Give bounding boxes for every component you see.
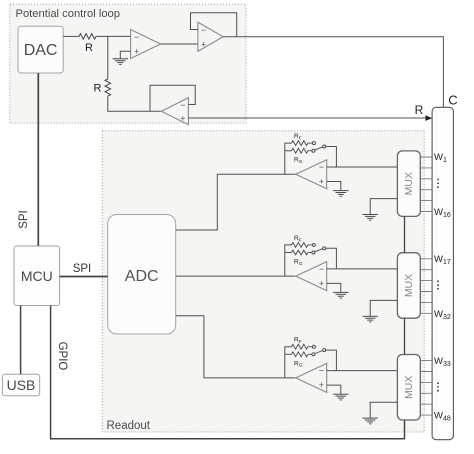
resistor R1: [79, 34, 96, 40]
resistor R2: [105, 79, 111, 96]
wire: U2 output to counter electrode C: [223, 37, 443, 108]
wire: R1 to op-amp U1 inverting input, junction node: [96, 35, 131, 37]
wire: MCU to ADC (SPI): [60, 276, 108, 278]
wire: A1 non-inverting input to ground: [327, 182, 341, 191]
svg-text:−: −: [319, 264, 324, 274]
dots: ellipsis W33..W48: [437, 382, 439, 391]
wire: A3 feedback left leg: [285, 347, 292, 378]
resistor Rf of A3: [292, 344, 308, 349]
svg-text:−: −: [201, 25, 206, 35]
wire: DAC output to resistor R: [63, 35, 79, 37]
svg-text:+: +: [319, 380, 324, 390]
wire: switch pole to inverting input of A2: [326, 248, 337, 269]
svg-text:MUX: MUX: [403, 376, 415, 399]
switch wiper of A1 gain select: [315, 147, 323, 150]
ground symbol at MUX1: [362, 214, 378, 216]
block MUX3: [397, 355, 420, 421]
resistor Rg of A1: [292, 148, 308, 153]
wire: MUX3 ground: [370, 402, 397, 418]
svg-text:C: C: [448, 93, 457, 108]
ground symbol at MUX2: [362, 315, 378, 317]
wire: junction down to resistor R2: [107, 36, 109, 79]
wire+ground: U1 non-inverting input to ground: [120, 51, 130, 59]
dashed box: readout: [102, 131, 424, 432]
wire: A2 non-inverting input to ground: [327, 283, 341, 292]
ground symbol G1: [113, 58, 129, 60]
ground symbol at A1: [333, 190, 349, 192]
svg-text:Readout: Readout: [107, 420, 151, 432]
block ADC: [108, 215, 176, 335]
dots: ellipsis W17..W32: [437, 280, 439, 289]
wire: A2 inverting input to MUX2: [327, 268, 398, 270]
svg-text:−: −: [134, 32, 139, 42]
svg-text:R: R: [415, 103, 424, 117]
svg-text:MUX: MUX: [403, 274, 415, 297]
block DAC: [18, 26, 63, 73]
ground symbol at MUX3: [362, 417, 378, 419]
svg-text:−: −: [319, 162, 324, 172]
ground symbol at A2: [333, 291, 349, 293]
svg-text:+: +: [319, 177, 324, 187]
op-amp U2: [198, 22, 223, 51]
block MUX1: [397, 151, 420, 217]
wire: MCU to USB: [20, 306, 22, 375]
svg-text:−: −: [180, 100, 185, 110]
op-amp U3: [161, 98, 188, 125]
wire: MUX2 ground: [370, 300, 397, 316]
wire: U1 output to U2 non-inverting input: [161, 43, 198, 45]
op-amp A1: [296, 160, 327, 189]
svg-text:USB: USB: [7, 377, 36, 393]
wire: ADC channel 2 to op-amp A2 output: [176, 275, 296, 277]
ground symbol at A3: [333, 393, 349, 395]
svg-text:MCU: MCU: [21, 268, 53, 284]
wire: A3 non-inverting input to ground: [327, 385, 341, 394]
wire: MCU GPIO bus to MUX chain: [51, 306, 405, 439]
block MCU: [14, 246, 60, 306]
svg-text:R: R: [94, 83, 102, 95]
svg-text:SPI: SPI: [18, 210, 30, 229]
wire: A1 inverting input to MUX1: [327, 166, 398, 168]
svg-text:+: +: [180, 113, 185, 123]
wire: R2 to op-amp U3 output: [108, 96, 162, 111]
svg-text:DAC: DAC: [24, 42, 58, 59]
svg-text:R: R: [85, 42, 93, 54]
wire: ADC channel 3 to op-amp A3 output: [176, 316, 296, 378]
resistor Rf of A1: [292, 141, 308, 146]
resistor Rf of A2: [292, 243, 308, 248]
wire: U3 non-inverting input from reference electrode R, with arrow: [188, 117, 426, 119]
svg-text:Potential control loop: Potential control loop: [16, 8, 120, 20]
arrowhead into electrode bar: [426, 115, 433, 121]
wires: MUX2 outputs to electrode bar: [420, 259, 432, 314]
op-amp A2: [296, 262, 327, 291]
block MUX2: [397, 253, 420, 319]
wire: A2 feedback left leg: [285, 245, 292, 276]
svg-text:SPI: SPI: [73, 263, 92, 275]
switch wiper of A2 gain select: [315, 249, 323, 252]
dashed box: potential control loop: [10, 4, 246, 123]
wire: ADC channel 1 to op-amp A1 output: [176, 174, 296, 230]
wire: MUX1 to MUX2 select chain: [404, 216, 406, 252]
wires: MUX3 outputs to electrode bar: [420, 361, 432, 416]
wire: U2 feedback loop: [191, 13, 237, 37]
wire: A3 inverting input to MUX3: [327, 370, 398, 372]
switch wiper of A3 gain select: [315, 351, 323, 354]
resistor Rg of A3: [292, 352, 308, 357]
wire: MUX2 to MUX3 select chain: [404, 318, 406, 354]
svg-text:+: +: [201, 39, 206, 49]
svg-text:MUX: MUX: [403, 172, 415, 195]
wire: A1 feedback left leg: [285, 143, 292, 174]
op-amp A3: [296, 363, 327, 392]
svg-text:ADC: ADC: [125, 268, 159, 285]
wire: switch pole to inverting input of A1: [326, 147, 337, 168]
dots: ellipsis W1..W16: [437, 179, 439, 188]
wire: DAC to MCU (SPI): [37, 73, 39, 246]
resistor Rg of A2: [292, 250, 308, 255]
op-amp U1: [131, 30, 161, 59]
wire: MUX1 ground: [370, 199, 397, 215]
svg-text:−: −: [319, 366, 324, 376]
svg-text:+: +: [319, 278, 324, 288]
wire: U3 feedback loop: [150, 85, 195, 111]
block USB: [2, 374, 39, 396]
electrode connector bar: [432, 107, 453, 439]
wires: MUX1 outputs to electrode bar: [420, 157, 432, 212]
svg-text:+: +: [134, 47, 139, 57]
wire: switch pole to inverting input of A3: [326, 350, 337, 371]
svg-text:GPIO: GPIO: [56, 342, 68, 371]
